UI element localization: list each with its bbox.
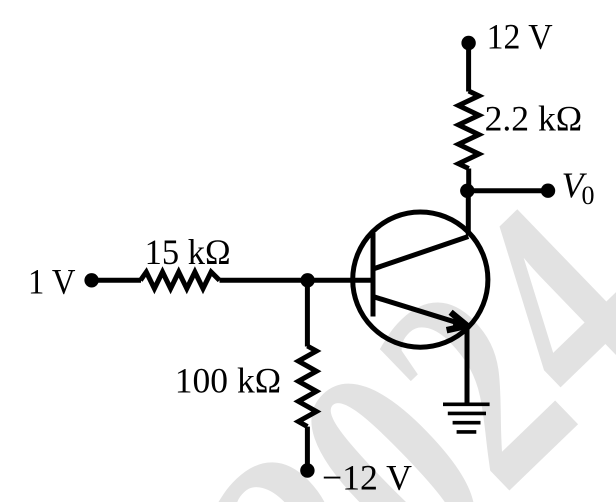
transistor Q1 emitter arrowhead — [447, 312, 467, 330]
transistor Q1 circle — [353, 212, 488, 347]
resistor 2.2 kOhm — [459, 91, 479, 169]
node -12V terminal — [300, 463, 314, 477]
svg-text:0: 0 — [582, 181, 595, 210]
resistor 15 kOhm — [141, 272, 220, 289]
node B junction dot — [300, 273, 314, 287]
node V0 terminal — [541, 184, 555, 198]
wire collector node to V0 terminal — [467, 188, 548, 193]
wire R 2.2k to collector node — [466, 169, 471, 192]
svg-text:100 kΩ: 100 kΩ — [175, 361, 281, 401]
wire R 100k to -12V terminal — [305, 427, 310, 471]
node 1V terminal — [84, 273, 98, 287]
svg-text:15 kΩ: 15 kΩ — [145, 232, 231, 272]
transistor Q1 collector lead — [375, 237, 469, 269]
resistor 100 kOhm — [298, 346, 316, 427]
wire from R 15k to base node and transistor base — [220, 278, 375, 283]
wire emitter down to ground — [465, 326, 470, 405]
transistor Q1 base bar — [371, 233, 376, 317]
svg-text:2.2 kΩ: 2.2 kΩ — [485, 99, 583, 139]
node 12V terminal — [461, 36, 475, 50]
transistor Q1 emitter lead — [374, 297, 468, 326]
wire 12V terminal to R 2.2k — [466, 43, 471, 92]
wire from 1V terminal to R 15k — [92, 278, 141, 283]
svg-text:12 V: 12 V — [487, 17, 553, 57]
node collector junction dot — [460, 184, 474, 198]
ground symbol — [443, 404, 490, 432]
svg-text:−12 V: −12 V — [322, 457, 412, 497]
svg-text:1 V: 1 V — [28, 262, 76, 302]
wire node B down to R 100k — [305, 280, 310, 346]
wire collector node down to transistor — [466, 191, 471, 236]
svg-text:2024: 2024 — [152, 146, 616, 502]
